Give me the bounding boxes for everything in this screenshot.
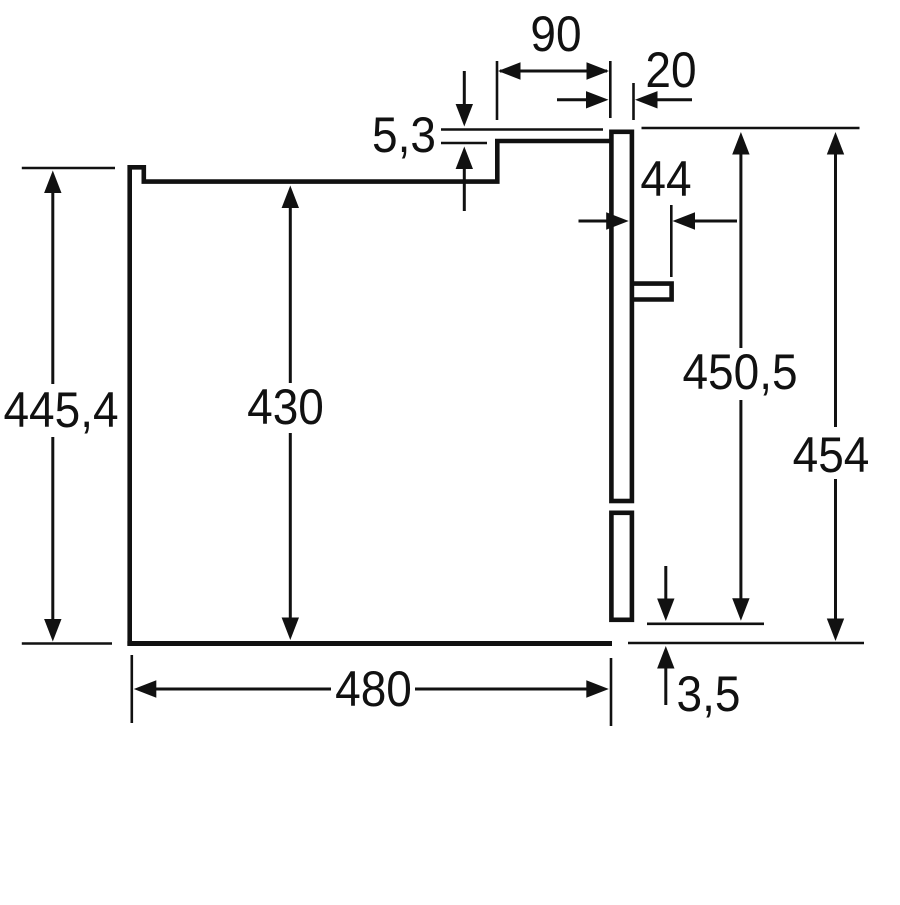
dimension 454 shaft (834, 150, 837, 622)
arrowhead 3,5 down (657, 599, 674, 622)
arrowhead 5,3 up (456, 147, 473, 170)
arrowhead 454 up (827, 132, 844, 155)
front frame upper column (611, 132, 632, 501)
dimension 5,3 bottom shaft (463, 165, 466, 211)
arrowhead 430 up (282, 186, 299, 209)
svg-text:454: 454 (793, 428, 870, 483)
dimension 20 right shaft (653, 98, 692, 101)
svg-text:20: 20 (645, 43, 696, 98)
extension line 445,4 bottom (22, 642, 112, 645)
dimension 90 line (500, 70, 607, 73)
dimension 450,5 shaft (739, 150, 742, 602)
arrowhead 450,5 up (732, 132, 749, 155)
svg-text:44: 44 (640, 152, 691, 207)
dimension 430 shaft (289, 204, 292, 621)
top surface thin line right of column (642, 127, 860, 130)
arrowhead 445,4 down (44, 619, 61, 642)
arrowhead 90 left (498, 62, 521, 79)
svg-text:5,3: 5,3 (372, 108, 436, 163)
arrowhead 20 pointing left (635, 91, 658, 108)
top surface thin line left of column (441, 128, 603, 131)
arrowhead 5,3 down (456, 104, 473, 127)
dimension 5,3 top shaft (463, 71, 466, 108)
extension line 90 right / 20 left (609, 61, 612, 118)
arrowhead 90 right (587, 62, 610, 79)
extension line 44 (670, 205, 673, 277)
extension line 20 right (632, 83, 635, 120)
niche profile left wall and top step (130, 141, 613, 646)
arrowhead 480 right (586, 680, 609, 697)
arrowhead 445,4 up (44, 171, 61, 194)
mounting tab (632, 284, 672, 300)
arrowhead 44 pointing right (606, 212, 629, 229)
niche bottom line (127, 641, 612, 646)
dimension 20 left shaft (557, 98, 590, 101)
arrowhead 450,5 down (732, 598, 749, 621)
extension line 3,5 bottom / 454 bottom (628, 642, 864, 645)
extension line 445,4 top (22, 167, 115, 170)
dimension 480 shaft (152, 688, 590, 691)
arrowhead 480 left (134, 680, 157, 697)
arrowhead 44 pointing left (673, 212, 696, 229)
svg-text:430: 430 (247, 380, 324, 435)
svg-text:480: 480 (335, 662, 412, 717)
dimension 445,4 shaft (51, 189, 54, 622)
dimension 3,5 top shaft (664, 566, 667, 602)
extension line 3,5 top / 450,5 bottom (647, 622, 764, 625)
svg-text:450,5: 450,5 (682, 345, 797, 400)
front frame lower column (611, 513, 632, 620)
arrowhead 430 down (282, 618, 299, 641)
svg-text:3,5: 3,5 (677, 667, 741, 722)
arrowhead 20 pointing right (586, 91, 609, 108)
svg-text:445,4: 445,4 (3, 383, 118, 438)
extension line 480 right (610, 658, 613, 726)
extension line 90 left (496, 61, 499, 120)
extension line for 5,3 lower (441, 142, 487, 145)
extension line 480 left (131, 655, 134, 723)
svg-text:90: 90 (530, 7, 581, 62)
arrowhead 454 down (827, 619, 844, 642)
arrowhead 3,5 up (657, 646, 674, 669)
dimension 3,5 bottom shaft (664, 665, 667, 705)
dimension 44 shafts (579, 220, 738, 223)
